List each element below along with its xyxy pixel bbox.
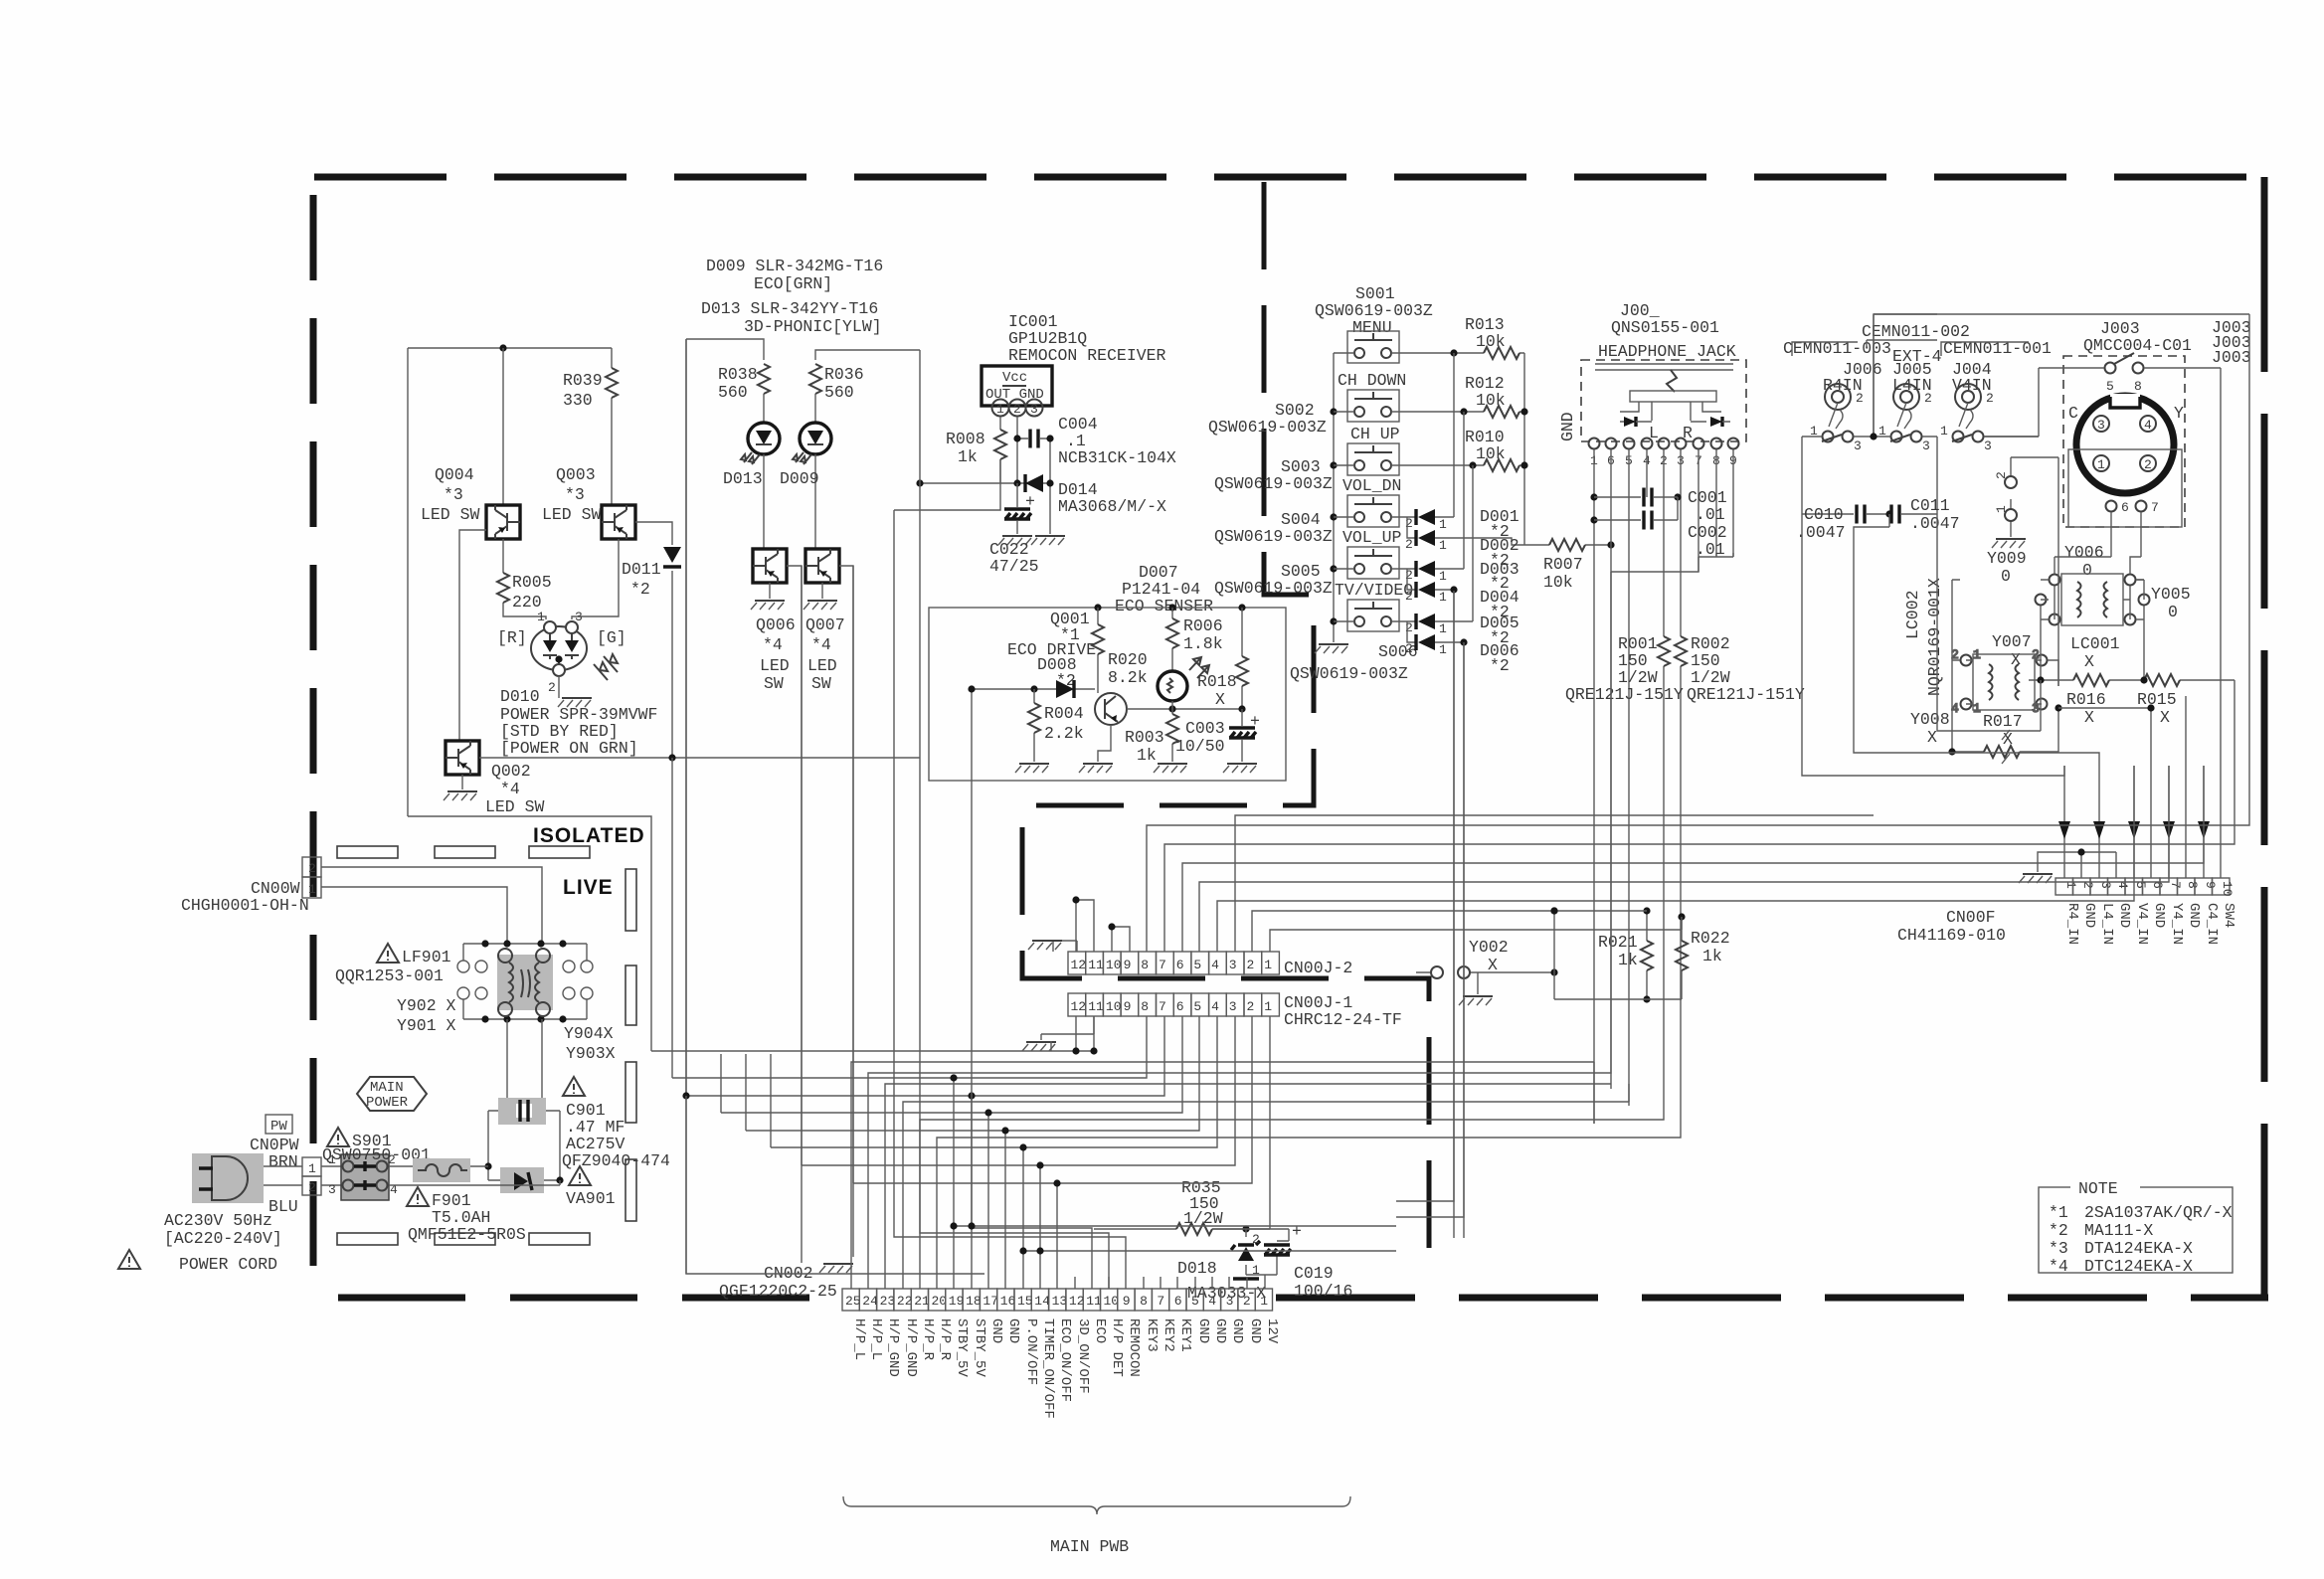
svg-text:3: 3 bbox=[1229, 958, 1237, 972]
resistor R012 bbox=[1416, 411, 1524, 413]
svg-text:10k: 10k bbox=[1476, 444, 1506, 463]
wire Q004 emitter to R005 bbox=[503, 539, 546, 619]
switch S002 bbox=[1347, 390, 1399, 422]
svg-text:*4: *4 bbox=[811, 635, 831, 654]
wire to Q004 bbox=[502, 348, 504, 505]
svg-text:H/P_L: H/P_L bbox=[851, 1318, 867, 1360]
svg-text:.0047: .0047 bbox=[1796, 523, 1846, 542]
svg-text:GND: GND bbox=[1229, 1318, 1245, 1343]
wire LED rail down bbox=[408, 816, 651, 867]
D014 bbox=[920, 482, 1050, 484]
svg-text:2: 2 bbox=[1405, 620, 1413, 635]
wire Q003 emitter to D010 pin3 bbox=[572, 539, 619, 619]
transistor Q002 bbox=[446, 741, 479, 775]
contacts arrows L R bbox=[1624, 417, 1636, 427]
svg-text:QSW0619-003Z: QSW0619-003Z bbox=[1214, 474, 1333, 493]
svg-text:GND: GND bbox=[1195, 1318, 1211, 1343]
svg-text:P.ON/OFF: P.ON/OFF bbox=[1023, 1318, 1039, 1385]
svg-text:ECO[GRN]: ECO[GRN] bbox=[754, 274, 832, 293]
svg-text:3: 3 bbox=[2032, 701, 2040, 716]
svg-text:BLU: BLU bbox=[268, 1197, 298, 1216]
svg-text:DTA124EKA-X: DTA124EKA-X bbox=[2084, 1239, 2193, 1258]
svg-text:R008: R008 bbox=[946, 430, 985, 448]
svg-text:CHRC12-24-TF: CHRC12-24-TF bbox=[1284, 1010, 1402, 1029]
resistor R038 bbox=[758, 364, 770, 394]
svg-text:H/P_L: H/P_L bbox=[868, 1318, 884, 1360]
bracket outlines around labels bbox=[1792, 340, 2029, 356]
svg-text:47/25: 47/25 bbox=[989, 557, 1039, 576]
svg-text:R039: R039 bbox=[563, 371, 603, 390]
s-video detect switch pins 5 8 bbox=[2105, 363, 2116, 374]
wire J006 contact to J003 switch bbox=[1874, 314, 2249, 437]
svg-text:3: 3 bbox=[575, 610, 583, 624]
svg-text:D011: D011 bbox=[622, 560, 661, 579]
svg-text:5: 5 bbox=[1193, 958, 1201, 972]
svg-text:POWER: POWER bbox=[366, 1095, 409, 1111]
svg-text:.0047: .0047 bbox=[1910, 514, 1960, 533]
svg-text:*3: *3 bbox=[2049, 1239, 2068, 1258]
svg-text:GND: GND bbox=[2186, 903, 2202, 928]
svg-text:R007: R007 bbox=[1543, 555, 1583, 574]
svg-text:4: 4 bbox=[1211, 958, 1219, 972]
svg-text:12: 12 bbox=[1071, 958, 1087, 972]
svg-text:QRE121J-151Y: QRE121J-151Y bbox=[1565, 685, 1684, 704]
svg-text:1: 1 bbox=[1439, 621, 1447, 636]
ground CN00J-1 bbox=[1041, 1016, 1094, 1040]
svg-text:3D_ON/OFF: 3D_ON/OFF bbox=[1075, 1318, 1091, 1394]
s-video connector ring bbox=[2076, 396, 2174, 493]
svg-text:QMF51E2-5R0S: QMF51E2-5R0S bbox=[408, 1225, 526, 1244]
svg-text:LED: LED bbox=[807, 656, 837, 675]
svg-text:3: 3 bbox=[1922, 439, 1930, 453]
svg-text:12: 12 bbox=[1069, 1294, 1085, 1309]
svg-text:*1: *1 bbox=[2049, 1203, 2068, 1222]
svg-text:REMOCON RECEIVER: REMOCON RECEIVER bbox=[1008, 346, 1166, 365]
svg-text:0: 0 bbox=[2001, 567, 2011, 586]
svg-text:Vcc: Vcc bbox=[1002, 370, 1027, 386]
svg-text:20: 20 bbox=[932, 1294, 948, 1309]
node top bbox=[499, 344, 506, 351]
PW box bbox=[266, 1115, 292, 1134]
diode D018 bbox=[1238, 1247, 1254, 1261]
svg-text:LC002: LC002 bbox=[1903, 590, 1922, 639]
svg-text:CH DOWN: CH DOWN bbox=[1338, 371, 1406, 390]
resistor R017 bbox=[1952, 660, 2058, 752]
svg-text:PW: PW bbox=[270, 1119, 287, 1135]
svg-text:Y008: Y008 bbox=[1910, 710, 1950, 729]
dual LED D010 bbox=[531, 621, 587, 676]
switch S006 bbox=[1347, 600, 1399, 631]
svg-text:1: 1 bbox=[537, 610, 545, 624]
C004 net bbox=[1017, 417, 1050, 506]
resistor R013 bbox=[1416, 352, 1524, 354]
svg-text:ECO_ON/OFF: ECO_ON/OFF bbox=[1057, 1318, 1073, 1402]
svg-text:X: X bbox=[2160, 708, 2170, 727]
transformer LF901 bbox=[457, 940, 593, 1022]
ground CN002 bbox=[819, 1264, 853, 1273]
svg-text:H/P_R: H/P_R bbox=[920, 1318, 936, 1361]
svg-text:CN00J-2: CN00J-2 bbox=[1284, 959, 1352, 977]
svg-text:3: 3 bbox=[2097, 418, 2105, 433]
resistor R016 and R015 bbox=[2029, 679, 2220, 681]
wire CN00W pin1 bbox=[321, 887, 507, 944]
svg-text:10: 10 bbox=[1106, 999, 1122, 1014]
svg-text:R005: R005 bbox=[512, 573, 552, 592]
connector CN00W bbox=[302, 857, 321, 877]
wire eco drive to CN002 pin11 bbox=[972, 689, 1092, 1289]
svg-text:560: 560 bbox=[718, 383, 748, 402]
svg-text:7: 7 bbox=[2151, 500, 2159, 515]
D010 ground bbox=[558, 676, 560, 698]
svg-text:Y009: Y009 bbox=[1987, 549, 2027, 568]
wire Q004 base left down to Q002 bbox=[459, 530, 486, 741]
svg-text:POWER CORD: POWER CORD bbox=[179, 1255, 277, 1274]
svg-text:Y006: Y006 bbox=[2064, 543, 2104, 562]
svg-text:*2: *2 bbox=[2049, 1221, 2068, 1240]
svg-text:X: X bbox=[2084, 652, 2094, 671]
svg-text:C4_IN: C4_IN bbox=[2204, 903, 2220, 945]
LED D009 bbox=[793, 423, 831, 464]
svg-text:C003: C003 bbox=[1185, 719, 1225, 738]
svg-text:8: 8 bbox=[2134, 379, 2142, 394]
border bottom left part bbox=[338, 1295, 825, 1302]
switch S005 bbox=[1347, 547, 1399, 579]
svg-text:9: 9 bbox=[1124, 958, 1132, 972]
svg-text:DTC124EKA-X: DTC124EKA-X bbox=[2084, 1257, 2193, 1276]
border right bbox=[2261, 177, 2268, 1299]
ground CN00J-2 bbox=[1042, 941, 1077, 952]
svg-text:J003: J003 bbox=[2212, 348, 2251, 367]
wire fuse to ladder bbox=[470, 1165, 488, 1167]
svg-text:22: 22 bbox=[897, 1294, 913, 1309]
diode D006 bbox=[1407, 621, 1416, 642]
svg-text:3D-PHONIC[YLW]: 3D-PHONIC[YLW] bbox=[744, 317, 882, 336]
svg-text:MAIN: MAIN bbox=[370, 1080, 404, 1096]
svg-text:2: 2 bbox=[1986, 391, 1994, 406]
svg-text:+: + bbox=[1292, 1222, 1302, 1241]
svg-text:2: 2 bbox=[1243, 1294, 1251, 1309]
svg-text:1: 1 bbox=[1994, 505, 2009, 513]
svg-text:4: 4 bbox=[1208, 1294, 1216, 1309]
svg-text:R038: R038 bbox=[718, 365, 758, 384]
border left bbox=[310, 195, 317, 1266]
svg-text:QQR1253-001: QQR1253-001 bbox=[335, 966, 444, 985]
top feed wires bbox=[686, 339, 764, 1274]
svg-text:D013 SLR-342YY-T16: D013 SLR-342YY-T16 bbox=[701, 299, 878, 318]
svg-text:330: 330 bbox=[563, 391, 593, 410]
svg-text:4: 4 bbox=[2144, 418, 2152, 433]
svg-text:*2: *2 bbox=[1490, 656, 1510, 675]
resistor R021 bbox=[1646, 911, 1648, 999]
svg-text:C011: C011 bbox=[1910, 496, 1950, 515]
wire C010 bus to CN00F pin1 bbox=[1802, 514, 2064, 776]
svg-text:10/50: 10/50 bbox=[1175, 737, 1225, 756]
svg-text:CH UP: CH UP bbox=[1350, 425, 1400, 443]
svg-text:7: 7 bbox=[1157, 1294, 1164, 1309]
svg-text:3: 3 bbox=[1030, 402, 1038, 417]
C010 / C011 caps bbox=[1802, 477, 1937, 514]
svg-text:2.2k: 2.2k bbox=[1044, 724, 1084, 743]
svg-text:CN00F: CN00F bbox=[1946, 908, 1996, 927]
svg-text:Y002: Y002 bbox=[1469, 938, 1509, 957]
svg-text:LED SW: LED SW bbox=[542, 505, 602, 524]
svg-text:+: + bbox=[1250, 712, 1260, 731]
svg-text:1: 1 bbox=[1973, 701, 1981, 716]
svg-text:GND: GND bbox=[2081, 903, 2097, 928]
svg-text:GND: GND bbox=[1558, 412, 1577, 441]
diode D011 bbox=[635, 522, 672, 758]
eco senser block outline bbox=[929, 608, 1286, 781]
svg-text:C: C bbox=[2068, 404, 2078, 423]
svg-text:Y005: Y005 bbox=[2151, 585, 2191, 604]
svg-text:[AC220-240V]: [AC220-240V] bbox=[164, 1229, 282, 1248]
jack pin row bbox=[1589, 439, 1600, 449]
svg-text:2: 2 bbox=[1924, 391, 1932, 406]
svg-text:D010: D010 bbox=[500, 687, 540, 706]
wire Q002 output to CN002 pin10 bbox=[920, 758, 1109, 1289]
svg-text:GND: GND bbox=[1247, 1318, 1263, 1343]
svg-text:4: 4 bbox=[390, 1182, 398, 1197]
svg-text:5: 5 bbox=[2106, 379, 2114, 394]
svg-text:11: 11 bbox=[1086, 1294, 1102, 1309]
svg-text:Y: Y bbox=[2174, 404, 2184, 423]
svg-text:CHGH0001-OH-N: CHGH0001-OH-N bbox=[181, 896, 309, 915]
svg-text:11: 11 bbox=[1088, 999, 1104, 1014]
svg-text:1k: 1k bbox=[1702, 947, 1722, 965]
capacitor C002 bbox=[1590, 516, 1597, 523]
svg-text:10: 10 bbox=[2220, 881, 2235, 897]
svg-text:R022: R022 bbox=[1691, 929, 1730, 948]
svg-text:1: 1 bbox=[1264, 958, 1272, 972]
rca jack J006 R4IN bbox=[1802, 384, 1874, 453]
svg-text:VA901: VA901 bbox=[566, 1189, 616, 1208]
transformer LC002 bbox=[1973, 654, 2035, 710]
svg-text:18: 18 bbox=[966, 1294, 982, 1309]
svg-text:1k: 1k bbox=[1618, 951, 1638, 969]
svg-text:X: X bbox=[1488, 956, 1498, 974]
svg-text:8: 8 bbox=[1140, 1294, 1148, 1309]
svg-text:KEY3: KEY3 bbox=[1144, 1318, 1160, 1352]
svg-text:SW: SW bbox=[811, 674, 831, 693]
transformer coils bbox=[1951, 647, 2048, 716]
svg-text:R003: R003 bbox=[1125, 728, 1164, 747]
svg-text:8: 8 bbox=[1141, 999, 1149, 1014]
svg-text:R016: R016 bbox=[2066, 690, 2106, 709]
svg-text:HEADPHONE JACK: HEADPHONE JACK bbox=[1598, 342, 1736, 361]
svg-text:560: 560 bbox=[824, 383, 854, 402]
svg-text:BRN: BRN bbox=[268, 1152, 298, 1171]
wire hp pin1 to CN002 pin25 bbox=[851, 1062, 1594, 1289]
svg-text:.01: .01 bbox=[1696, 505, 1725, 524]
AC plug bbox=[192, 1153, 264, 1203]
svg-text:*3: *3 bbox=[565, 485, 585, 504]
wire top rail bbox=[408, 348, 612, 816]
s-video dashed outline bbox=[2063, 356, 2185, 527]
svg-text:6: 6 bbox=[2121, 500, 2129, 515]
svg-text:NOTE: NOTE bbox=[2078, 1179, 2118, 1198]
svg-text:1: 1 bbox=[308, 882, 316, 897]
svg-text:R015: R015 bbox=[2137, 690, 2177, 709]
wire CN00W pin2 bbox=[321, 867, 542, 944]
svg-text:1k: 1k bbox=[1137, 746, 1157, 765]
svg-text:2: 2 bbox=[308, 861, 316, 876]
svg-text:LED: LED bbox=[760, 656, 790, 675]
svg-text:R4_IN: R4_IN bbox=[2064, 903, 2080, 945]
svg-text:R020: R020 bbox=[1108, 650, 1148, 669]
svg-text:15: 15 bbox=[1017, 1294, 1033, 1309]
svg-text:1: 1 bbox=[1439, 590, 1447, 605]
svg-text:R036: R036 bbox=[824, 365, 864, 384]
resistor R036 bbox=[809, 364, 821, 394]
svg-text:2: 2 bbox=[1013, 402, 1021, 417]
diode D003 bbox=[1418, 561, 1435, 577]
svg-text:[G]: [G] bbox=[597, 628, 626, 647]
svg-text:8.2k: 8.2k bbox=[1108, 668, 1148, 687]
svg-text:24: 24 bbox=[862, 1294, 878, 1309]
resistor R003 bbox=[1171, 701, 1173, 762]
svg-text:[R]: [R] bbox=[497, 628, 527, 647]
svg-text:1: 1 bbox=[1439, 642, 1447, 657]
diode D005 bbox=[1418, 614, 1435, 629]
pin circles bbox=[1589, 439, 1739, 449]
svg-text:H/P_GND: H/P_GND bbox=[903, 1318, 919, 1377]
svg-text:ECO: ECO bbox=[1092, 1318, 1108, 1343]
svg-text:MAIN PWB: MAIN PWB bbox=[1050, 1537, 1129, 1556]
svg-text:1: 1 bbox=[1439, 569, 1447, 584]
svg-text:2: 2 bbox=[1405, 568, 1413, 583]
resistor R022 bbox=[1681, 917, 1683, 999]
svg-text:LED SW: LED SW bbox=[485, 797, 545, 816]
transformer bottom wires to cap ladder bbox=[507, 1019, 542, 1111]
svg-text:GND: GND bbox=[1212, 1318, 1228, 1343]
svg-text:9: 9 bbox=[2203, 881, 2218, 889]
svg-text:QSW0619-003Z: QSW0619-003Z bbox=[1214, 527, 1333, 546]
svg-text:7: 7 bbox=[1159, 999, 1166, 1014]
BLU wire to right side of ladder bbox=[389, 1180, 560, 1185]
svg-text:8: 8 bbox=[1141, 958, 1149, 972]
svg-text:2: 2 bbox=[1405, 537, 1413, 552]
resistor R039 bbox=[611, 348, 613, 505]
svg-text:16: 16 bbox=[1000, 1294, 1016, 1309]
ground CN00F bbox=[2038, 852, 2116, 878]
svg-text:0: 0 bbox=[2168, 603, 2178, 621]
border bottom right part bbox=[1276, 1295, 2268, 1302]
svg-text:C010: C010 bbox=[1804, 505, 1844, 524]
LED D013 bbox=[741, 423, 780, 464]
svg-text:GND: GND bbox=[988, 1318, 1004, 1343]
svg-text:2: 2 bbox=[1252, 1232, 1260, 1247]
resistor R020 bbox=[1097, 608, 1099, 693]
svg-text:Q006: Q006 bbox=[756, 615, 796, 634]
svg-text:QMCC004-C01: QMCC004-C01 bbox=[2083, 336, 2192, 355]
svg-text:Y007: Y007 bbox=[1992, 632, 2032, 651]
svg-text:MA111-X: MA111-X bbox=[2084, 1221, 2153, 1240]
svg-text:Y903X: Y903X bbox=[566, 1044, 616, 1063]
svg-text:ISOLATED: ISOLATED bbox=[533, 824, 645, 847]
svg-text:H/P_GND: H/P_GND bbox=[885, 1318, 901, 1377]
svg-text:QSW0619-003Z: QSW0619-003Z bbox=[1208, 418, 1327, 437]
svg-text:Y4_IN: Y4_IN bbox=[2169, 903, 2185, 945]
switch S001 bbox=[1347, 331, 1399, 363]
svg-text:10: 10 bbox=[1106, 958, 1122, 972]
svg-text:GND: GND bbox=[1005, 1318, 1021, 1343]
svg-text:QNS0155-001: QNS0155-001 bbox=[1611, 318, 1719, 337]
svg-text:2: 2 bbox=[308, 1180, 316, 1195]
svg-text:D018: D018 bbox=[1177, 1259, 1217, 1278]
headphone jack dashed outline bbox=[1581, 360, 1746, 441]
resistor R006 bbox=[1171, 608, 1173, 672]
svg-text:ECO SENSER: ECO SENSER bbox=[1115, 597, 1213, 615]
svg-text:V4_IN: V4_IN bbox=[2134, 903, 2150, 945]
svg-text:*4: *4 bbox=[763, 635, 783, 654]
svg-text:NQR0169-001X: NQR0169-001X bbox=[1925, 578, 1944, 696]
svg-text:LIVE: LIVE bbox=[563, 876, 614, 899]
svg-text:1: 1 bbox=[1940, 424, 1948, 439]
svg-text:10: 10 bbox=[1104, 1294, 1120, 1309]
resistor R035 bbox=[1094, 1228, 1289, 1230]
svg-text:6: 6 bbox=[1174, 1294, 1182, 1309]
capacitor C003 bbox=[1241, 709, 1243, 762]
jumper Y009 bbox=[2010, 463, 2012, 537]
svg-text:STBY_5V: STBY_5V bbox=[954, 1318, 970, 1377]
svg-text:1: 1 bbox=[1260, 1294, 1268, 1309]
svg-text:7: 7 bbox=[1159, 958, 1166, 972]
svg-text:L4_IN: L4_IN bbox=[2099, 903, 2115, 945]
svg-text:25: 25 bbox=[845, 1294, 861, 1309]
R007 junction into pin bus bbox=[1610, 544, 1612, 546]
diode D008 bbox=[1056, 680, 1074, 698]
svg-text:1: 1 bbox=[1264, 999, 1272, 1014]
svg-text:19: 19 bbox=[949, 1294, 965, 1309]
svg-text:2: 2 bbox=[1994, 471, 2009, 479]
svg-text:R004: R004 bbox=[1044, 704, 1084, 723]
svg-text:11: 11 bbox=[1088, 958, 1104, 972]
wire hp pin bus bbox=[1594, 449, 1733, 1124]
svg-text:10k: 10k bbox=[1476, 332, 1506, 351]
svg-text:8: 8 bbox=[2185, 881, 2200, 889]
svg-text:R021: R021 bbox=[1598, 933, 1638, 952]
jack body bbox=[1595, 364, 1733, 370]
svg-text:GND: GND bbox=[2151, 903, 2167, 928]
svg-text:R006: R006 bbox=[1183, 616, 1223, 635]
svg-text:H/P_R: H/P_R bbox=[937, 1318, 953, 1361]
diode D001 bbox=[1418, 509, 1435, 525]
transformer LC001 bbox=[2061, 574, 2123, 625]
svg-text:+: + bbox=[1025, 492, 1035, 511]
svg-text:4: 4 bbox=[1211, 999, 1219, 1014]
svg-text:X: X bbox=[2084, 708, 2094, 727]
svg-text:LED SW: LED SW bbox=[421, 505, 480, 524]
svg-text:3: 3 bbox=[328, 1182, 336, 1197]
capacitor C019 bbox=[1264, 1245, 1291, 1255]
svg-text:CH41169-010: CH41169-010 bbox=[1897, 926, 2006, 945]
svg-text:QSW0619-003Z: QSW0619-003Z bbox=[1290, 664, 1408, 683]
svg-text:10k: 10k bbox=[1543, 573, 1573, 592]
diode D004 bbox=[1407, 569, 1416, 590]
svg-text:1: 1 bbox=[2097, 457, 2105, 472]
svg-text:3: 3 bbox=[1229, 999, 1237, 1014]
switch S004 bbox=[1347, 495, 1399, 527]
svg-text:QRE121J-151Y: QRE121J-151Y bbox=[1687, 685, 1805, 704]
svg-text:13: 13 bbox=[1052, 1294, 1068, 1309]
svg-text:Q002: Q002 bbox=[491, 762, 531, 781]
svg-text:*4: *4 bbox=[500, 780, 520, 798]
svg-text:9: 9 bbox=[1123, 1294, 1131, 1309]
svg-text:LC001: LC001 bbox=[2070, 634, 2120, 653]
svg-text:2SA1037AK/QR/-X: 2SA1037AK/QR/-X bbox=[2084, 1203, 2233, 1222]
wire remocon out to CN002 pin9 bbox=[894, 510, 1126, 1289]
capacitor C011 bbox=[1891, 505, 1899, 524]
